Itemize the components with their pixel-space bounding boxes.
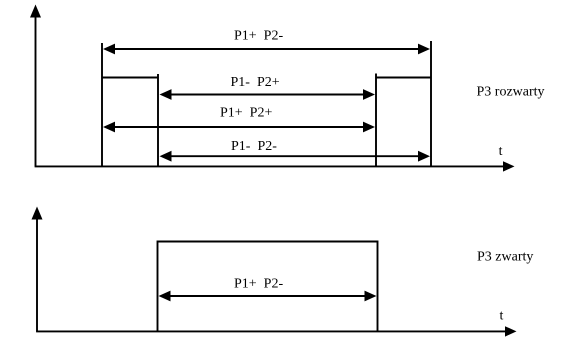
y-axis (top plot) [30,5,41,167]
dimension arrow P1+ P2+ (top plot) [103,122,375,133]
svg-text:P1- P2+: P1- P2+ [231,75,280,90]
dimension arrow P1- P2+ (top plot) [160,89,376,100]
svg-text:P3 zwarty: P3 zwarty [477,249,533,264]
svg-text:P1- P2-: P1- P2- [231,139,277,154]
dimension arrow P1- P2- (top plot) [160,151,431,162]
pulse 1 right edge (top plot) [157,74,159,166]
svg-text:t: t [500,309,504,324]
svg-text:P1+ P2-: P1+ P2- [234,29,283,44]
svg-text:P1+ P2+: P1+ P2+ [220,105,272,120]
svg-text:P1+ P2-: P1+ P2- [234,276,283,291]
pulse 2 top (top plot) [376,77,431,79]
dimension arrow P1+ P2- (bottom plot) [159,291,377,302]
pulse 1 left edge (top plot) [101,43,103,166]
dimension arrow P1+ P2- (top plot) [103,44,430,55]
x-axis (bottom plot) [36,326,516,336]
pulse 1 top (top plot) [102,77,158,79]
pulse waveform (bottom plot) [158,242,378,332]
pulse 2 left edge (top plot) [375,74,377,167]
x-axis (top plot) [35,161,515,171]
svg-text:P3 rozwarty: P3 rozwarty [477,84,545,99]
y-axis (bottom plot) [32,207,43,332]
svg-text:t: t [499,144,503,159]
pulse 2 right edge (top plot) [430,41,432,166]
